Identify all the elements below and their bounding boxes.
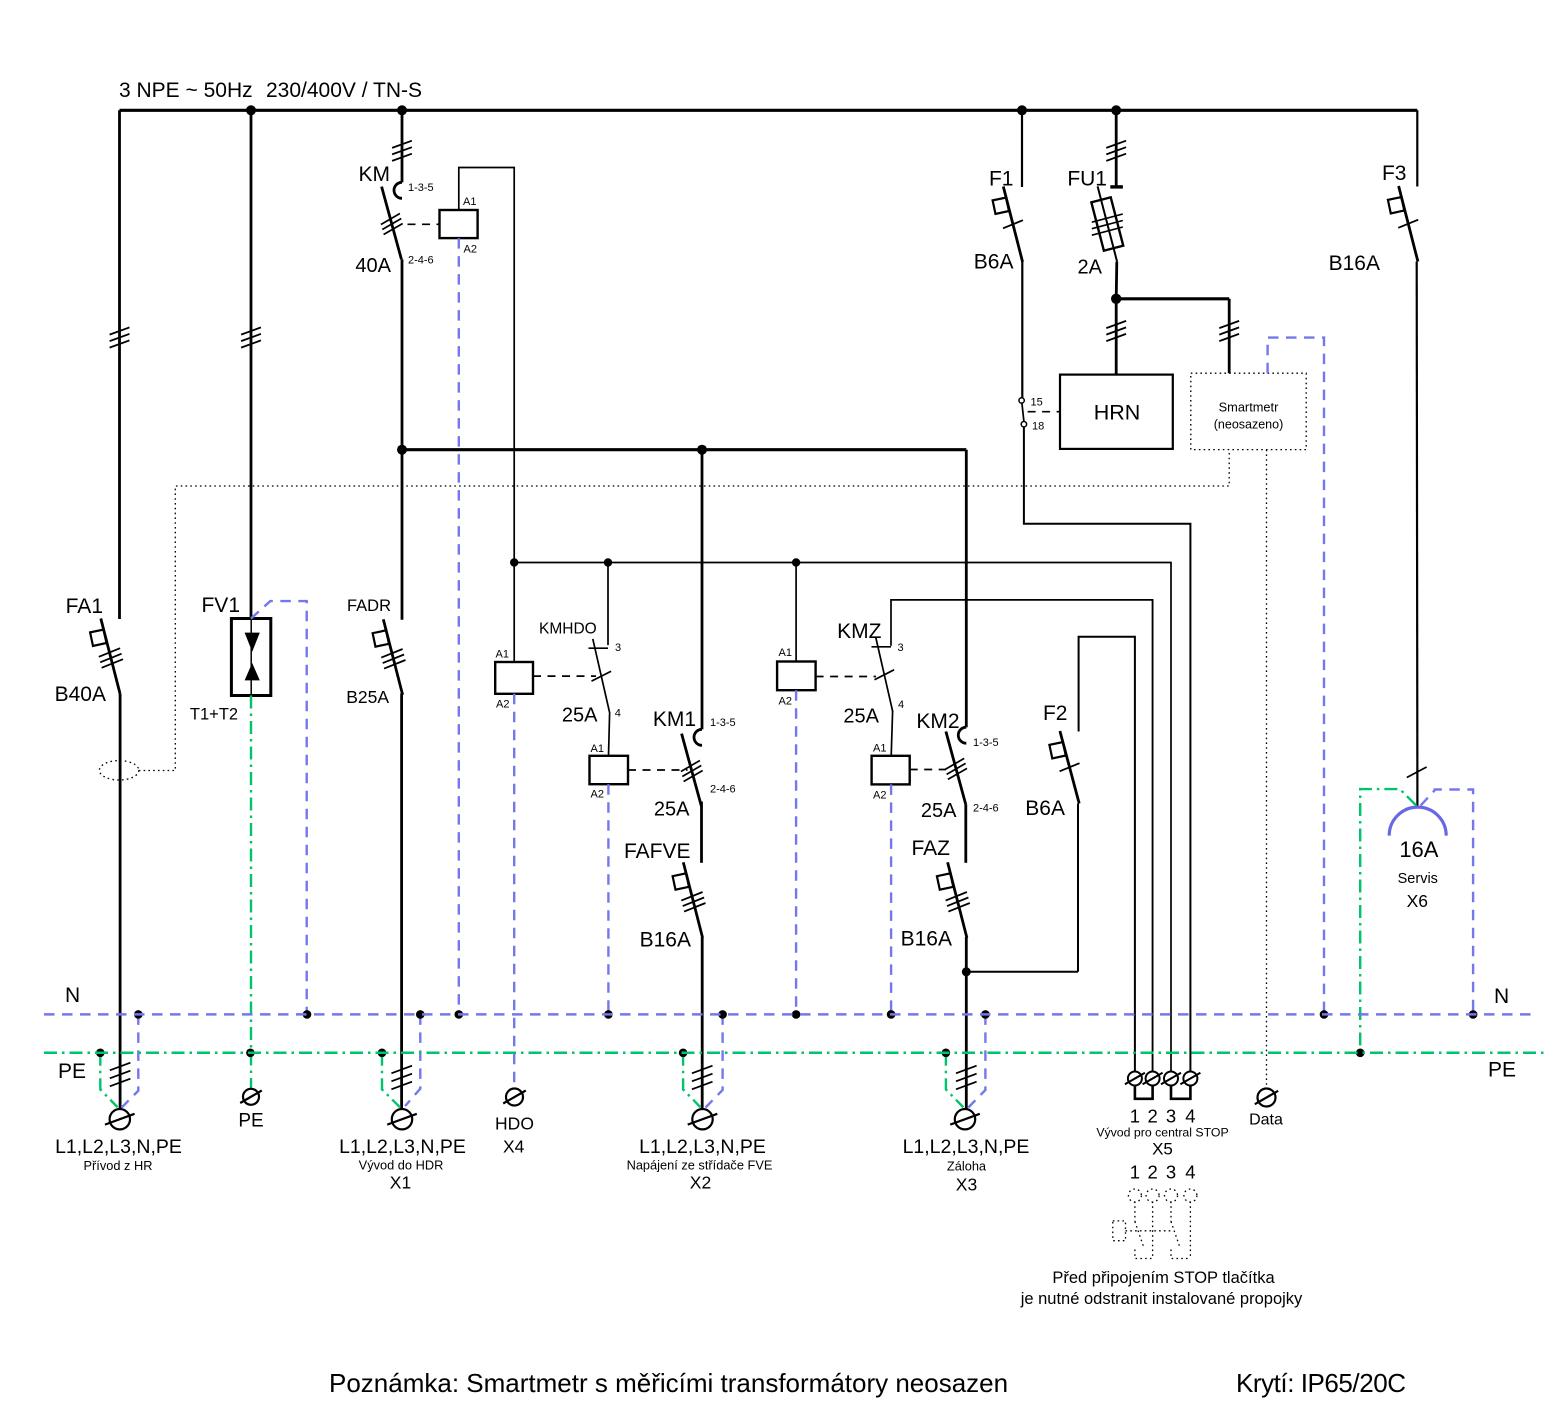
node coil bus KMZ tap (792, 558, 800, 566)
box Smartmetr dotted (1191, 373, 1306, 449)
label KMZ (837, 620, 882, 643)
svg-text:A2: A2 (496, 699, 509, 711)
wire KM coil A2 dashed (458, 238, 460, 1014)
svg-text:X1: X1 (390, 1173, 411, 1193)
svg-text:A2: A2 (779, 696, 792, 708)
svg-text:230/400V / TN-S: 230/400V / TN-S (266, 79, 422, 102)
label HRN (1094, 401, 1141, 425)
svg-text:4: 4 (898, 699, 904, 711)
mech link KMZ dashed (816, 676, 876, 678)
svg-text:3: 3 (1166, 1162, 1176, 1183)
node X6 PE (1356, 1049, 1365, 1058)
fuse FU1 tbar (1110, 185, 1123, 188)
wire F1 upper (1021, 110, 1023, 187)
wire F2 out (1077, 804, 1079, 972)
wire FU1 out (1115, 262, 1118, 299)
breaker F3 (1388, 186, 1418, 262)
wire FA1 branch lower (119, 694, 122, 1109)
terminal Data (1255, 1089, 1278, 1107)
label 25A KM1 (654, 799, 690, 821)
svg-text:Poznámka: Smartmetr s měřicími: Poznámka: Smartmetr s měřicími transform… (329, 1368, 1008, 1398)
mech link KM dashed (408, 223, 440, 225)
svg-text:B16A: B16A (1329, 252, 1380, 275)
wire CT sense dotted (139, 450, 1229, 771)
wire F2 to FAZ (966, 971, 1078, 973)
svg-text:25A: 25A (562, 705, 598, 727)
node PE input (96, 1049, 105, 1058)
note Kryti (1236, 1368, 1406, 1398)
node FAZ F2 junction (962, 967, 971, 976)
wire KMZ to KM2 coil (891, 711, 892, 755)
label 25A KM2 (921, 800, 957, 822)
label KM A2 (464, 244, 477, 256)
label N left (65, 984, 80, 1007)
coil KMHDO box (495, 662, 533, 694)
wire Smartmetr N dashed (1268, 338, 1324, 1015)
label Vyvod pro central STOP (1096, 1126, 1228, 1140)
label KM1 2-4-6 (710, 784, 736, 796)
hash marks HRN drop (1106, 321, 1126, 341)
hash marks FV1 (241, 327, 261, 347)
label Vyvod do HDR (359, 1158, 444, 1173)
label B6A F2 (1025, 797, 1065, 820)
node KMZ A2 N (792, 1010, 801, 1019)
node KM bus tap (397, 105, 407, 115)
label 2A (1078, 257, 1103, 279)
fuse FU1 body (1091, 186, 1123, 261)
terminal X5-4 (1180, 1072, 1200, 1086)
svg-text:Vývod do HDR: Vývod do HDR (359, 1158, 444, 1173)
svg-text:X5: X5 (1152, 1140, 1173, 1159)
svg-text:B6A: B6A (1025, 797, 1065, 820)
svg-text:18: 18 (1032, 421, 1044, 433)
svg-text:FU1: FU1 (1067, 168, 1107, 191)
svg-text:15: 15 (1031, 397, 1043, 409)
svg-text:B16A: B16A (901, 928, 952, 951)
wire KM coil A1 (459, 168, 514, 563)
svg-text:N: N (65, 984, 80, 1007)
PE stub X3 (946, 1053, 963, 1108)
label X5 pin 2 lower (1147, 1162, 1157, 1183)
wire X6 PE green (1360, 789, 1416, 1053)
contact HRN 15 (1019, 398, 1024, 403)
label KM2 2-4-6 (973, 803, 999, 815)
node KM A2 N (455, 1010, 464, 1019)
svg-text:FAFVE: FAFVE (624, 840, 691, 863)
contactor KM pole (381, 182, 403, 259)
contact KMZ (872, 638, 895, 713)
svg-text:A2: A2 (873, 790, 886, 802)
label KM1 1-3-5 (710, 717, 736, 729)
svg-text:X6: X6 (1407, 891, 1428, 911)
label KMHDO A2 (496, 699, 509, 711)
wire X2 branch lower (701, 937, 704, 1109)
label KM (359, 163, 391, 186)
wire HRN contact blade (1022, 403, 1024, 421)
label KMZ A2 (779, 696, 792, 708)
hash marks X1 lower (391, 1066, 412, 1090)
label B16A F3 (1329, 252, 1380, 275)
svg-text:X3: X3 (956, 1175, 977, 1195)
wire F3 lower (1416, 262, 1419, 807)
wire KM2 branch upper (965, 450, 968, 728)
PE stub input (100, 1053, 117, 1107)
node N X3 (981, 1010, 990, 1019)
node KM out bus450 (397, 445, 407, 455)
svg-text:B25A: B25A (346, 687, 389, 707)
PE stub X2 (683, 1053, 700, 1108)
wire X1 branch lower (400, 694, 403, 1109)
hash marks X3 lower (956, 1066, 977, 1090)
node FU1 bus tap (1111, 105, 1121, 115)
svg-text:2-4-6: 2-4-6 (710, 784, 736, 796)
label 18 (1032, 421, 1044, 433)
svg-text:Před připojením STOP tlačítka: Před připojením STOP tlačítka (1052, 1269, 1275, 1287)
svg-text:KMHDO: KMHDO (539, 621, 597, 638)
wire KMZ A2 dashed (795, 690, 797, 1014)
label 15 (1031, 397, 1043, 409)
label FA1 (66, 595, 103, 618)
terminal HDO X4 (503, 1089, 526, 1106)
svg-text:1-3-5: 1-3-5 (973, 737, 999, 749)
wire HRN top H (1116, 297, 1229, 300)
label X1 L1,L2,L3,N,PE (339, 1136, 466, 1158)
wire KM2 out (964, 804, 967, 863)
STOP button dotted symbol (1113, 1189, 1197, 1259)
svg-text:PE: PE (1488, 1059, 1516, 1082)
label X3 (956, 1175, 977, 1195)
svg-text:Krytí: IP65/20C: Krytí: IP65/20C (1236, 1368, 1406, 1398)
svg-text:KM1: KM1 (653, 708, 696, 731)
node FV1 N (303, 1010, 312, 1019)
label PE right (1488, 1059, 1516, 1082)
surge arrester FV1 box (231, 619, 270, 696)
label X5 pin 4 lower (1185, 1162, 1195, 1183)
node KM1 A2 N (604, 1010, 613, 1019)
svg-text:25A: 25A (921, 800, 957, 822)
svg-text:T1+T2: T1+T2 (190, 706, 238, 724)
label X5 pin 1 lower (1130, 1162, 1140, 1183)
svg-text:F1: F1 (989, 168, 1014, 191)
label HDO (495, 1114, 534, 1134)
svg-text:2A: 2A (1078, 257, 1103, 279)
label 16A (1399, 837, 1438, 862)
svg-text:Servis: Servis (1398, 871, 1438, 887)
label FADR (347, 597, 391, 615)
svg-text:Přívod z HR: Přívod z HR (84, 1158, 153, 1173)
label X5 pin 4 upper (1185, 1106, 1195, 1127)
wire KMHDO to KM1 coil (609, 714, 610, 756)
hash marks FA1 upper (110, 327, 130, 347)
title text 3 NPE ~ 50Hz (119, 79, 253, 102)
N stub X2 (706, 1014, 723, 1107)
label B16A FAZ (901, 928, 952, 951)
svg-text:2-4-6: 2-4-6 (973, 803, 999, 815)
svg-text:A1: A1 (463, 196, 476, 208)
label KM2 A1 (873, 743, 886, 755)
contact KMHDO (589, 639, 612, 714)
svg-text:25A: 25A (843, 706, 879, 728)
svg-text:FV1: FV1 (201, 594, 240, 617)
hash marks X2 lower (692, 1066, 713, 1090)
svg-text:L1,L2,L3,N,PE: L1,L2,L3,N,PE (55, 1136, 182, 1158)
terminal X1 (387, 1109, 417, 1129)
label input L1,L2,L3,N,PE (55, 1136, 182, 1158)
socket X6 arc (1389, 807, 1446, 836)
coil KMZ box (777, 662, 816, 691)
wire FA1 branch upper (118, 110, 121, 619)
label KMHDO 3 (615, 642, 621, 654)
wire coil bus (514, 563, 1171, 1072)
svg-text:Smartmetr: Smartmetr (1219, 400, 1279, 415)
wire KMHDO A2 dashed (513, 694, 515, 1089)
label N right (1494, 985, 1509, 1008)
node coil bus KM tap (510, 558, 518, 566)
node N input (134, 1010, 143, 1019)
wire FU1 upper (1115, 110, 1118, 187)
label Data (1249, 1112, 1283, 1129)
mech link KMHDO dashed (533, 675, 596, 677)
svg-text:B40A: B40A (55, 683, 106, 706)
wire FV1 branch (250, 110, 253, 618)
wire F1 mid (1021, 262, 1023, 398)
wire KM2 A2 dashed (890, 784, 892, 1014)
jumper X5 1-2 (1135, 1086, 1153, 1099)
svg-text:4: 4 (1185, 1106, 1195, 1127)
coil KM1 box (590, 756, 629, 784)
label FV1 (201, 594, 240, 617)
svg-text:25A: 25A (654, 799, 690, 821)
mech link KM1 dashed (628, 769, 688, 771)
breaker FAZ (937, 862, 970, 938)
label B25A (346, 687, 389, 707)
label F3 (1382, 162, 1407, 185)
svg-text:FADR: FADR (347, 597, 391, 615)
label FAZ (911, 837, 950, 860)
label FAFVE (624, 840, 691, 863)
wire bus 450 (402, 448, 966, 451)
wire KM1 branch upper (701, 450, 704, 730)
label X5 pin 2 upper (1147, 1106, 1157, 1127)
node FU1 out (1111, 294, 1121, 304)
node PE X1 (378, 1049, 387, 1058)
label B6A F1 (974, 251, 1014, 274)
svg-text:A1: A1 (496, 649, 509, 661)
wire KM branch mid (401, 259, 404, 620)
N stub X3 (968, 1014, 985, 1107)
svg-text:KM: KM (359, 163, 391, 186)
wire F3 upper (1416, 110, 1418, 186)
svg-text:HDO: HDO (495, 1114, 534, 1134)
hash marks Smartmetr drop (1219, 321, 1239, 341)
note Poznamka (329, 1368, 1008, 1398)
node KM1 bus450 tap (697, 445, 707, 455)
hash marks FA1 lower (110, 1063, 131, 1087)
svg-text:L1,L2,L3,N,PE: L1,L2,L3,N,PE (903, 1136, 1030, 1158)
svg-text:je nutné odstranit instalované: je nutné odstranit instalované propojky (1020, 1290, 1303, 1308)
label X5 pin 3 upper (1166, 1106, 1176, 1127)
breaker FAFVE (673, 862, 706, 938)
svg-text:F3: F3 (1382, 162, 1407, 185)
label 25A KMHDO (562, 705, 598, 727)
svg-text:FA1: FA1 (66, 595, 103, 618)
label X4 (503, 1137, 525, 1157)
breaker F2 (1049, 731, 1079, 804)
svg-text:B16A: B16A (640, 929, 691, 952)
label KMHDO A1 (496, 649, 509, 661)
terminal X5-3 (1161, 1072, 1181, 1086)
wire N rail dashed (44, 1013, 1537, 1016)
label KM1 A2 (591, 789, 604, 801)
svg-text:Vývod pro central STOP: Vývod pro central STOP (1096, 1126, 1228, 1140)
label KMZ 4 (898, 699, 904, 711)
terminal X5-2 (1143, 1072, 1163, 1086)
node coil bus KMHDO tap (604, 558, 612, 566)
label KM2 1-3-5 (973, 737, 999, 749)
svg-text:KM2: KM2 (916, 710, 959, 733)
wire top bus L1-L3 3NPE (120, 109, 1418, 112)
svg-text:Záloha: Záloha (947, 1159, 987, 1174)
tick X6 wire (1407, 767, 1427, 778)
coil KM box (440, 210, 478, 238)
label X6 (1407, 891, 1428, 911)
svg-text:A1: A1 (591, 743, 604, 755)
label X5 (1152, 1140, 1173, 1159)
hash marks FU1 (1106, 141, 1126, 161)
svg-text:3: 3 (1166, 1106, 1176, 1127)
svg-text:PE: PE (238, 1111, 263, 1132)
label KM 2-4-6 (408, 255, 434, 267)
svg-text:A2: A2 (464, 244, 477, 256)
svg-text:3: 3 (615, 642, 621, 654)
wire FV1 to PE green (250, 696, 252, 1089)
wire F1 to X5-4 (1024, 427, 1191, 1072)
label X2 (690, 1173, 711, 1193)
svg-text:Napájení ze střídače FVE: Napájení ze střídače FVE (627, 1158, 773, 1173)
terminal X2 (688, 1109, 718, 1129)
svg-text:40A: 40A (355, 255, 391, 277)
label T1+T2 (190, 706, 238, 724)
mech link KM2 dashed (910, 769, 946, 771)
node N X1 (416, 1010, 425, 1019)
node FV1 bus tap (246, 105, 256, 115)
mech link HRN dashed (1028, 411, 1060, 413)
label KM1 A1 (591, 743, 604, 755)
label X3 L1,L2,L3,N,PE (903, 1136, 1030, 1158)
svg-text:X2: X2 (690, 1173, 711, 1193)
label KMZ 3 (898, 642, 904, 654)
node PE X3 (942, 1049, 951, 1058)
terminal input L1L2L3NPE (105, 1109, 135, 1129)
label B40A (55, 683, 106, 706)
node FV1 PE (246, 1049, 255, 1058)
svg-text:2: 2 (1147, 1162, 1157, 1183)
svg-text:3: 3 (898, 642, 904, 654)
svg-text:B6A: B6A (974, 251, 1014, 274)
svg-text:A1: A1 (873, 743, 886, 755)
svg-text:1-3-5: 1-3-5 (408, 182, 434, 194)
label STOP note line1 (1052, 1269, 1275, 1287)
svg-text:FAZ: FAZ (911, 837, 950, 860)
wire KMZ contact L (891, 600, 1153, 1072)
node KM2 A2 N (887, 1010, 896, 1019)
wire HRN drop (1115, 299, 1118, 375)
wire KMHDO A1 (513, 563, 515, 663)
svg-text:(neosazeno): (neosazeno) (1214, 418, 1284, 432)
label KM1 (653, 708, 696, 731)
label X5 pin 1 upper (1130, 1106, 1140, 1127)
terminal X3 (950, 1109, 980, 1129)
PE stub X1 (382, 1053, 400, 1108)
label X1 (390, 1173, 411, 1193)
relay HRN box (1060, 375, 1173, 449)
svg-text:A2: A2 (591, 789, 604, 801)
breaker FA1 (90, 619, 123, 695)
wire PE rail green (44, 1052, 1545, 1055)
svg-text:X4: X4 (503, 1137, 525, 1157)
label neosazeno (1214, 418, 1284, 432)
label F2 (1043, 702, 1068, 725)
label F1 (989, 168, 1014, 191)
label 40A (355, 255, 391, 277)
wire KMZ A1 (795, 563, 797, 662)
svg-text:16A: 16A (1399, 837, 1438, 862)
label KMHDO 4 (615, 708, 621, 720)
wire X6 N dashed (1421, 790, 1473, 1015)
node X6 N (1469, 1010, 1478, 1019)
wire KM1 out (700, 802, 703, 863)
label PE terminal (238, 1111, 263, 1132)
label Napajeni ze stridace FVE (627, 1158, 773, 1173)
hash marks KM upper (392, 141, 412, 161)
wire X5-2 drop (1152, 600, 1154, 1072)
label KM 1-3-5 (408, 182, 434, 194)
svg-text:Data: Data (1249, 1112, 1283, 1129)
svg-text:1: 1 (1130, 1106, 1140, 1127)
wire KM branch upper (401, 110, 404, 182)
svg-text:HRN: HRN (1094, 401, 1141, 425)
jumper X5 3-4 (1171, 1086, 1190, 1099)
label X5 pin 3 lower (1166, 1162, 1176, 1183)
coil KM2 box (872, 756, 910, 785)
wire Data dotted (1266, 450, 1268, 1089)
label 25A KMZ (843, 706, 879, 728)
svg-text:L1,L2,L3,N,PE: L1,L2,L3,N,PE (339, 1136, 466, 1158)
svg-text:PE: PE (58, 1060, 86, 1083)
label STOP note line2 (1020, 1290, 1303, 1308)
svg-text:4: 4 (1185, 1162, 1195, 1183)
CT ellipse dotted (99, 761, 138, 780)
breaker F1 (993, 187, 1023, 263)
label FU1 (1067, 168, 1107, 191)
terminal X5-1 (1125, 1072, 1145, 1086)
label X2 L1,L2,L3,N,PE (639, 1136, 766, 1158)
svg-text:1: 1 (1130, 1162, 1140, 1183)
contactor KM2 pole (945, 727, 967, 804)
contactor KM1 pole (681, 729, 703, 806)
label KM A1 (463, 196, 476, 208)
node F1 bus tap (1017, 105, 1027, 115)
svg-text:2: 2 (1147, 1106, 1157, 1127)
node PE X2 (679, 1049, 688, 1058)
title text 230/400V / TN-S (266, 79, 422, 102)
svg-text:F2: F2 (1043, 702, 1068, 725)
svg-text:2-4-6: 2-4-6 (408, 255, 434, 267)
N stub X1 (405, 1014, 420, 1106)
svg-text:KMZ: KMZ (837, 620, 882, 643)
terminal PE small (240, 1089, 262, 1105)
contact HRN 18 (1021, 422, 1026, 427)
